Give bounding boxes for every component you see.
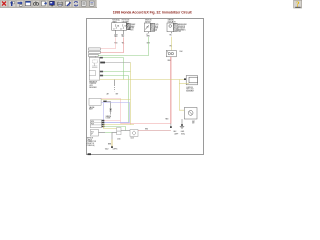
svg-text:BRN: BRN [108, 143, 111, 145]
svg-text:CONSOLE): CONSOLE) [87, 145, 95, 147]
wire stub ignition [148, 32, 150, 34]
wire gray merge to box B [121, 130, 131, 132]
wire yellow horizontal mid [101, 98, 130, 100]
svg-text:C567: C567 [178, 31, 181, 33]
label diode [106, 116, 112, 120]
wire label BLK YEL [122, 35, 125, 39]
svg-text:C550: C550 [117, 139, 121, 141]
svg-text:1998 Honda Accord EX Fig. 32:: 1998 Honda Accord EX Fig. 32: Immobilize… [113, 10, 193, 14]
svg-text:IGNITION: IGNITION [186, 87, 192, 89]
wire blue from P2 [102, 122, 130, 123]
label G401 location [174, 133, 185, 135]
toolbar button close [0, 0, 7, 7]
label C1 text [131, 24, 136, 31]
wire yellow vertical from indicator [171, 37, 173, 51]
toolbar background [0, 0, 97, 8]
svg-text:S: S [167, 52, 168, 54]
wire label blob 2 [100, 62, 130, 64]
wire pink long bottom [121, 123, 171, 125]
svg-text:BLK: BLK [174, 131, 177, 133]
wire black stub to splice [111, 133, 113, 140]
pin mark before R1 [184, 78, 186, 80]
ground splice dot [111, 146, 113, 148]
label below connector pair [117, 139, 121, 141]
wire red horizontal bottom [138, 129, 171, 131]
svg-text:RECEIVER: RECEIVER [89, 87, 96, 89]
wire label second fuse A [114, 43, 117, 45]
ECM PCM box P2 [90, 120, 101, 128]
ground G401 symbol [180, 127, 184, 129]
wire pink horizontal into row1 [100, 48, 115, 50]
wire to ground G401 [181, 119, 183, 124]
label ignition switch [145, 20, 151, 24]
help button top-right [294, 0, 302, 8]
svg-text:CHECK: CHECK [87, 139, 92, 141]
svg-text:YEL: YEL [169, 35, 172, 37]
svg-text:C564: C564 [179, 51, 182, 53]
svg-text:RED: RED [145, 128, 148, 130]
wire green 4 from control unit [100, 75, 129, 77]
toolbar button doc-lines [88, 0, 95, 7]
svg-text:LT: LT [146, 34, 148, 36]
label immobilizer control unit [89, 81, 97, 88]
svg-text:YEL: YEL [122, 43, 125, 45]
gauge box P1 [89, 98, 101, 105]
label immobilizer indicator [168, 20, 176, 24]
wire yellow from R1 down to R2 [179, 84, 184, 111]
svg-text:42: 42 [120, 28, 122, 30]
label hot in on [122, 20, 129, 24]
svg-text:(RIGHT OF: (RIGHT OF [87, 143, 94, 145]
wire label YEL [169, 35, 172, 37]
wire stub indicator [171, 32, 173, 34]
svg-text:M/T: M/T [116, 94, 119, 96]
wire label WHT RED [114, 35, 117, 39]
wire label RED top [168, 60, 171, 62]
svg-text:RED: RED [168, 60, 171, 62]
diagram title [113, 10, 193, 14]
connector hatch C2 [150, 23, 154, 31]
svg-text:ECM: ECM [91, 121, 94, 123]
svg-text:GRN: GRN [146, 36, 149, 38]
svg-text:2P: 2P [91, 134, 93, 136]
wire label LT GRN [146, 34, 149, 38]
splice dot left [170, 126, 172, 128]
connector hatch C3 [173, 23, 177, 31]
svg-text:(LEFT: (LEFT [174, 133, 178, 135]
wire red horizontal into row2 [100, 52, 123, 54]
wire yellow branch down [104, 125, 117, 129]
wire label second indicator [169, 45, 172, 47]
wire green horizontal into row3 [98, 55, 149, 57]
svg-text:KICK): KICK) [181, 133, 185, 135]
label G402 [105, 149, 118, 151]
ignition key box R1 [186, 76, 197, 85]
toolbar button up-arrow [8, 0, 15, 7]
svg-text:DIODE: DIODE [106, 118, 111, 120]
wire pink from P1 [101, 97, 120, 99]
wire label second fuse B [122, 43, 125, 45]
label ignition key [186, 87, 194, 93]
svg-text:RED: RED [114, 43, 117, 45]
svg-text:SERVICE: SERVICE [87, 138, 93, 140]
connector row 2 [89, 51, 101, 53]
wire black below pink bend [170, 124, 172, 127]
key switch box R2 [184, 108, 197, 120]
toolbar button binoculars [32, 0, 39, 7]
wire label blob P1 [103, 101, 106, 102]
svg-text:YEL: YEL [122, 36, 125, 38]
wire yellow step into R1 [179, 80, 189, 84]
svg-text:PCM: PCM [91, 124, 94, 126]
label R2 [192, 121, 195, 125]
wire yellow vertical long [130, 63, 132, 125]
connector row 3 [89, 54, 99, 56]
lower connector small box [117, 131, 121, 135]
toolbar button text-doc [80, 0, 87, 7]
svg-text:BLK: BLK [122, 35, 125, 37]
diode D1 [109, 109, 111, 115]
page mark bottom-left [88, 153, 91, 155]
wire label second ignition [147, 43, 150, 45]
svg-text:CONNECTOR: CONNECTOR [87, 141, 96, 143]
wire red vertical from fuse B [123, 37, 125, 52]
toolbar button refresh [72, 0, 79, 7]
svg-text:BOX: BOX [131, 29, 134, 31]
label C2 text [155, 24, 159, 31]
svg-text:G402: G402 [105, 149, 109, 151]
junction box B [130, 130, 138, 137]
svg-text:G401: G401 [181, 131, 185, 133]
svg-text:RED: RED [165, 118, 168, 120]
wire green from P2 [102, 126, 126, 131]
svg-text:IG1: IG1 [147, 26, 149, 28]
canvas background [0, 0, 302, 167]
wire label BRN [108, 143, 111, 145]
wire stub fuse B [123, 30, 125, 34]
svg-text:UNIT-: UNIT- [89, 85, 93, 87]
pin stub below rows [95, 56, 97, 59]
toolbar button arrow-doc [16, 0, 23, 7]
wire red long vertical [170, 57, 172, 124]
indicator box [167, 23, 173, 32]
svg-text:C425: C425 [155, 24, 158, 26]
wire stub fuse A [115, 30, 117, 34]
wire yellow horizontal long [100, 79, 187, 81]
fuse box F1 [112, 23, 127, 31]
wire gray to diode [107, 102, 111, 109]
upper connector small box [117, 128, 121, 132]
connector hatch C1 [127, 23, 131, 30]
svg-text:IMMOBI: IMMOBI [106, 116, 112, 118]
wire pink from P2 [102, 120, 121, 121]
svg-text:IMMOBILZR: IMMOBILZR [89, 81, 97, 83]
service connector box P3 [90, 130, 98, 137]
ignition switch box [144, 23, 150, 32]
svg-text:CONTROL: CONTROL [89, 83, 96, 85]
dashed branch below yellow wire [107, 80, 119, 96]
svg-text:UNDER: UNDER [131, 24, 136, 26]
wire yellow from P2 [102, 124, 134, 125]
wire label RED bottom [165, 118, 168, 120]
svg-text:FUSE: FUSE [131, 28, 135, 30]
svg-text:YEL: YEL [169, 45, 172, 47]
svg-text:KEY LOCK: KEY LOCK [186, 89, 193, 91]
toolbar button window [24, 0, 31, 7]
receiver coil box [166, 50, 176, 56]
svg-text:SCS: SCS [91, 131, 94, 133]
wire pink vertical from fuse A [115, 37, 117, 48]
wire blue loop [101, 103, 129, 123]
toolbar button page-arrow [40, 0, 47, 7]
wire label RED mid [145, 128, 148, 130]
wire green from control unit top [100, 57, 124, 59]
wire green 3 from control unit [100, 71, 131, 73]
ground dot G401 [181, 124, 183, 126]
svg-text:C123: C123 [130, 137, 134, 139]
label C3 text [178, 24, 187, 33]
label BLK [174, 131, 185, 133]
wire pink vertical mid [120, 98, 122, 123]
wire yellow to ground splice [111, 140, 113, 147]
label P3 [87, 138, 96, 147]
svg-text:(LEFT): (LEFT) [113, 149, 118, 151]
toolbar button navy-window [48, 0, 55, 7]
label hot at all times [112, 19, 120, 24]
immobilizer control unit box [89, 57, 100, 80]
svg-text:RED: RED [114, 36, 117, 38]
wire green vertical from ignition [148, 37, 150, 56]
drawing frame [87, 19, 204, 155]
svg-text:IMMOBILIZER: IMMOBILIZER [178, 24, 187, 26]
wire green from P3 [99, 132, 117, 134]
wire green vertical right [128, 76, 130, 123]
svg-text:GRN: GRN [147, 43, 150, 45]
svg-text:WHT: WHT [155, 28, 158, 30]
svg-text:KEY: KEY [192, 121, 195, 123]
wire green vertical mid [123, 58, 125, 80]
label P1 [89, 106, 94, 111]
svg-text:WHT: WHT [114, 35, 117, 37]
label receiver C564 [179, 51, 182, 53]
toolbar button printer [56, 0, 63, 7]
label box B [130, 137, 134, 139]
toolbar button page-pencil [64, 0, 71, 7]
connector row 1 [89, 48, 101, 50]
